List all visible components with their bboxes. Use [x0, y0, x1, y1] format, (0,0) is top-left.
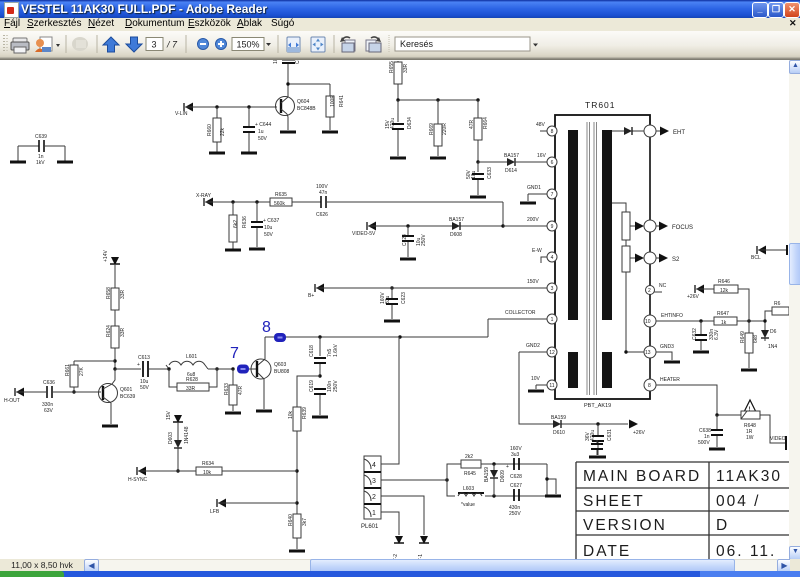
svg-text:15V: 15V — [166, 410, 172, 420]
svg-text:11AK30: 11AK30 — [716, 468, 782, 485]
svg-text:33R: 33R — [120, 289, 126, 299]
svg-text:33R: 33R — [186, 386, 196, 392]
svg-text:+26V: +26V — [687, 294, 699, 300]
svg-text:R660: R660 — [207, 124, 213, 136]
svg-text:4: 4 — [551, 255, 554, 261]
svg-text:8: 8 — [262, 319, 271, 336]
svg-text:10k: 10k — [203, 470, 212, 476]
svg-text:3u3: 3u3 — [511, 452, 520, 458]
svg-text:R635: R635 — [275, 192, 287, 198]
svg-text:BA159: BA159 — [551, 415, 566, 421]
svg-text:8: 8 — [551, 129, 554, 135]
svg-text:C618: C618 — [309, 345, 315, 357]
svg-text:1N4: 1N4 — [768, 344, 777, 350]
svg-text:200V: 200V — [527, 217, 539, 223]
svg-text:C626: C626 — [316, 212, 328, 218]
svg-text:2: 2 — [648, 288, 651, 294]
svg-text:C640: C640 — [295, 60, 301, 64]
svg-text:R649: R649 — [740, 331, 746, 343]
svg-text:D614: D614 — [505, 168, 517, 174]
svg-text:R655: R655 — [389, 61, 395, 73]
svg-text:33u: 33u — [385, 295, 391, 304]
svg-text:LFB: LFB — [210, 509, 220, 515]
svg-text:11: 11 — [549, 383, 554, 389]
svg-text:D608: D608 — [450, 232, 462, 238]
svg-text:C639: C639 — [35, 134, 47, 140]
svg-text:SHEET: SHEET — [583, 493, 645, 510]
svg-text:C627: C627 — [510, 483, 522, 489]
svg-text:D609: D609 — [500, 470, 506, 482]
svg-text:COLLECTOR: COLLECTOR — [505, 310, 536, 316]
svg-text:10u: 10u — [264, 225, 273, 231]
svg-text:+ C644: + C644 — [255, 122, 271, 128]
svg-text:33R: 33R — [403, 63, 409, 73]
svg-text:BC848B: BC848B — [297, 106, 316, 112]
svg-text:R639: R639 — [302, 407, 308, 419]
svg-text:R669: R669 — [429, 123, 435, 135]
svg-text:1W: 1W — [746, 435, 754, 441]
svg-text:1.6kV: 1.6kV — [333, 344, 339, 357]
svg-text:4: 4 — [372, 462, 376, 469]
svg-text:50V: 50V — [264, 232, 274, 238]
svg-text:NC: NC — [659, 283, 667, 289]
svg-text:C613: C613 — [138, 355, 150, 361]
svg-text:10k: 10k — [288, 410, 294, 419]
svg-text:L601: L601 — [186, 354, 197, 360]
svg-text:R661: R661 — [65, 364, 71, 376]
svg-text:Q601: Q601 — [120, 387, 132, 393]
svg-text:27K: 27K — [79, 366, 85, 376]
svg-text:H-OUT: H-OUT — [4, 398, 20, 404]
svg-text:V-LIN: V-LIN — [175, 111, 188, 117]
svg-text:D6: D6 — [770, 329, 777, 335]
svg-text:Q604: Q604 — [297, 99, 309, 105]
svg-text:13: 13 — [645, 350, 651, 356]
svg-text:12k: 12k — [720, 288, 729, 294]
svg-text:150V: 150V — [527, 279, 539, 285]
svg-text:R641: R641 — [339, 95, 345, 107]
svg-text:H-SYNC: H-SYNC — [128, 477, 148, 483]
svg-text:R664: R664 — [483, 117, 489, 129]
svg-text:1N4148: 1N4148 — [184, 426, 190, 444]
svg-text:+26V: +26V — [633, 430, 645, 436]
svg-text:12: 12 — [549, 350, 555, 356]
svg-text:16V: 16V — [537, 153, 547, 159]
svg-text:3: 3 — [372, 478, 376, 485]
svg-text:6: 6 — [551, 160, 554, 166]
svg-text:BCL: BCL — [751, 255, 761, 261]
svg-text:C632: C632 — [692, 328, 698, 340]
svg-text:33R: 33R — [120, 327, 126, 337]
svg-text:GND2: GND2 — [526, 343, 540, 349]
svg-text:R640: R640 — [288, 514, 294, 526]
svg-text:1kV: 1kV — [36, 160, 45, 166]
svg-text:220R: 220R — [442, 123, 448, 135]
svg-text:100R: 100R — [330, 95, 336, 107]
svg-text:PBT_AK19: PBT_AK19 — [584, 403, 611, 409]
svg-text:6k8: 6k8 — [753, 335, 759, 343]
svg-text:D610: D610 — [553, 430, 565, 436]
svg-text:06. 11.: 06. 11. — [716, 543, 776, 559]
svg-text:47n: 47n — [319, 190, 328, 196]
svg-text:R647: R647 — [717, 311, 729, 317]
svg-text:10V: 10V — [531, 376, 541, 382]
svg-text:VIDEO-5V: VIDEO-5V — [352, 231, 376, 237]
svg-text:50V: 50V — [140, 385, 150, 391]
svg-text:+ C637: + C637 — [263, 218, 279, 224]
svg-text:BA157: BA157 — [504, 153, 519, 159]
svg-text:48V: 48V — [536, 122, 546, 128]
svg-text:6.3V: 6.3V — [714, 329, 720, 340]
svg-text:C631: C631 — [607, 429, 613, 441]
svg-text:+14V: +14V — [103, 250, 109, 262]
svg-text:250V: 250V — [333, 380, 339, 392]
svg-text:C636: C636 — [43, 380, 55, 386]
svg-text:BA157: BA157 — [449, 217, 464, 223]
svg-text:10u: 10u — [471, 170, 477, 179]
svg-text:BA159: BA159 — [484, 467, 490, 482]
svg-text:560k: 560k — [274, 201, 285, 207]
svg-text:L603: L603 — [463, 486, 474, 492]
svg-text:GND1: GND1 — [527, 185, 541, 191]
svg-text:470u: 470u — [590, 430, 596, 441]
svg-text:MAIN BOARD: MAIN BOARD — [583, 468, 701, 485]
svg-text:1: 1 — [551, 317, 554, 323]
svg-text:GND3: GND3 — [660, 344, 674, 350]
svg-text:DATE: DATE — [583, 543, 631, 559]
svg-text:470u: 470u — [390, 118, 396, 129]
svg-text:S2: S2 — [672, 257, 680, 263]
svg-text:R628: R628 — [186, 377, 198, 383]
svg-text:R646: R646 — [718, 279, 730, 285]
svg-text:R633: R633 — [224, 383, 230, 395]
svg-text:+: + — [506, 464, 509, 470]
svg-text:3k7: 3k7 — [302, 518, 308, 526]
svg-text:7: 7 — [551, 192, 554, 198]
svg-text:2k2: 2k2 — [465, 454, 473, 460]
svg-text:C633: C633 — [487, 167, 493, 179]
svg-text:C628: C628 — [510, 474, 522, 480]
svg-text:250V: 250V — [509, 511, 521, 517]
svg-text:22k: 22k — [220, 127, 226, 136]
svg-text:10: 10 — [645, 319, 651, 325]
svg-text:1u: 1u — [258, 129, 264, 135]
svg-text:2: 2 — [372, 494, 376, 501]
svg-text:R636: R636 — [242, 216, 248, 228]
svg-text:B+: B+ — [308, 293, 314, 299]
svg-text:TR601: TR601 — [585, 100, 616, 110]
svg-text:VERSION: VERSION — [583, 517, 667, 534]
svg-text:C619: C619 — [309, 380, 315, 392]
svg-text:10u: 10u — [273, 60, 279, 64]
svg-text:R634: R634 — [202, 461, 214, 467]
svg-text:1: 1 — [372, 510, 376, 517]
svg-text:+: + — [137, 362, 140, 368]
svg-text:*value: *value — [461, 502, 475, 508]
svg-text:6k2: 6k2 — [233, 220, 239, 228]
svg-text:R624: R624 — [106, 325, 112, 337]
svg-text:D634: D634 — [407, 117, 413, 129]
svg-text:1k: 1k — [721, 320, 727, 326]
svg-text:3: 3 — [551, 286, 554, 292]
svg-text:63V: 63V — [44, 408, 54, 414]
svg-text:50V: 50V — [258, 136, 268, 142]
svg-text:E-W: E-W — [532, 248, 542, 254]
svg-text:Q603: Q603 — [274, 362, 286, 368]
svg-text:500V: 500V — [698, 440, 710, 446]
svg-text:EHT: EHT — [673, 130, 685, 136]
svg-text:3: 3 — [151, 40, 156, 50]
svg-text:/ 7: / 7 — [166, 40, 178, 50]
svg-text:47R: 47R — [238, 385, 244, 395]
svg-text:HEATER: HEATER — [660, 377, 680, 383]
svg-text:R645: R645 — [464, 471, 476, 477]
svg-text:BU808: BU808 — [274, 369, 290, 375]
svg-text:EHTINFO: EHTINFO — [661, 313, 683, 319]
svg-text:R6: R6 — [774, 301, 781, 307]
svg-text:R658: R658 — [106, 287, 112, 299]
svg-text:BC639: BC639 — [120, 394, 136, 400]
svg-text:47R: 47R — [469, 119, 475, 129]
svg-text:C624: C624 — [402, 234, 408, 246]
svg-text:D603: D603 — [168, 432, 174, 444]
svg-text:Keresés: Keresés — [400, 39, 434, 49]
svg-text:VIDEO: VIDEO — [770, 436, 786, 442]
svg-text:FOCUS: FOCUS — [672, 225, 693, 231]
svg-text:PL601: PL601 — [361, 524, 379, 530]
svg-text:004 /: 004 / — [716, 493, 760, 510]
svg-text:150%: 150% — [236, 40, 259, 50]
svg-text:250V: 250V — [421, 234, 427, 246]
svg-text:9: 9 — [551, 224, 554, 230]
svg-text:7: 7 — [230, 345, 239, 362]
svg-text:8: 8 — [648, 383, 651, 389]
svg-text:X-RAY: X-RAY — [196, 193, 212, 199]
svg-text:D: D — [716, 517, 729, 534]
svg-text:C623: C623 — [401, 292, 407, 304]
